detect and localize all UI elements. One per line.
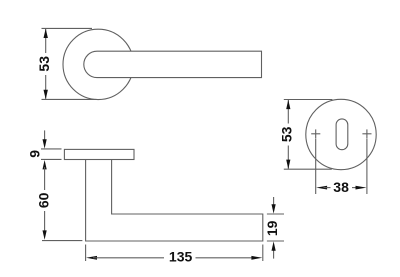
- dimension line right stub: [352, 187, 359, 189]
- extension line bottom: [42, 98, 97, 100]
- dimension 135 (overall length): [86, 245, 263, 265]
- svg-text:38: 38: [333, 179, 349, 195]
- dimension line lower segment: [287, 146, 289, 169]
- arrowhead down: [44, 90, 48, 99]
- arrow above pointing down: [44, 130, 46, 141]
- escutcheon circle: [306, 99, 376, 169]
- extension line top: [267, 213, 284, 215]
- dimension 53 (escutcheon diameter): [278, 100, 332, 170]
- extension line bottom: [41, 158, 62, 160]
- dimension line upper segment: [287, 100, 289, 124]
- svg-text:53: 53: [36, 56, 52, 72]
- arrowhead up: [44, 29, 48, 38]
- extension line top: [284, 99, 333, 101]
- svg-text:135: 135: [169, 249, 193, 265]
- svg-text:9: 9: [27, 150, 43, 158]
- dimension 9 (rose thickness): [27, 130, 62, 159]
- lever handle (front view): [84, 51, 262, 77]
- rose side view bar: [64, 149, 134, 159]
- dimension 60 (neck height): [35, 160, 82, 241]
- arrowhead right: [251, 256, 262, 260]
- svg-text:19: 19: [264, 220, 280, 236]
- svg-text:53: 53: [278, 126, 294, 142]
- arrowhead right: [356, 186, 367, 190]
- screw centre mark right: [362, 129, 371, 138]
- dimension line lower segment: [44, 211, 46, 232]
- arrow below pointing up: [273, 249, 275, 259]
- dimension line upper segment: [45, 29, 47, 53]
- arrowhead down: [286, 160, 290, 169]
- arrowhead left: [316, 186, 327, 190]
- extension line right: [366, 139, 368, 195]
- arrowhead down: [43, 230, 47, 239]
- extension line bottom: [267, 240, 284, 242]
- extension line bottom: [42, 240, 82, 242]
- extension line left: [85, 245, 87, 262]
- dimension line upper segment: [44, 167, 46, 190]
- dimension 38 (screw hole spacing): [316, 139, 367, 195]
- extension line top: [41, 148, 62, 150]
- dimension 19 (lever thickness, side view): [264, 197, 284, 259]
- extension line left: [315, 139, 317, 195]
- extension line right: [262, 245, 264, 262]
- arrowhead left: [86, 256, 97, 260]
- arrow up (also lower arrow of dim 9): [43, 160, 47, 169]
- keyhole slot: [336, 119, 348, 150]
- dimension line right segment: [196, 257, 254, 259]
- arrow above pointing down: [273, 197, 275, 206]
- dimension line left stub: [324, 187, 331, 189]
- dimension line left segment: [93, 257, 164, 259]
- dimension 53 (front view rose diameter): [36, 28, 97, 99]
- screw centre mark left: [311, 129, 320, 138]
- svg-text:60: 60: [35, 192, 51, 208]
- extension line bottom: [284, 168, 332, 170]
- rose circle (front view): [63, 29, 133, 99]
- lever L-shape (side view): [86, 160, 263, 241]
- dimension line lower segment: [45, 75, 47, 99]
- extension line top: [42, 27, 93, 29]
- arrowhead up: [286, 100, 290, 109]
